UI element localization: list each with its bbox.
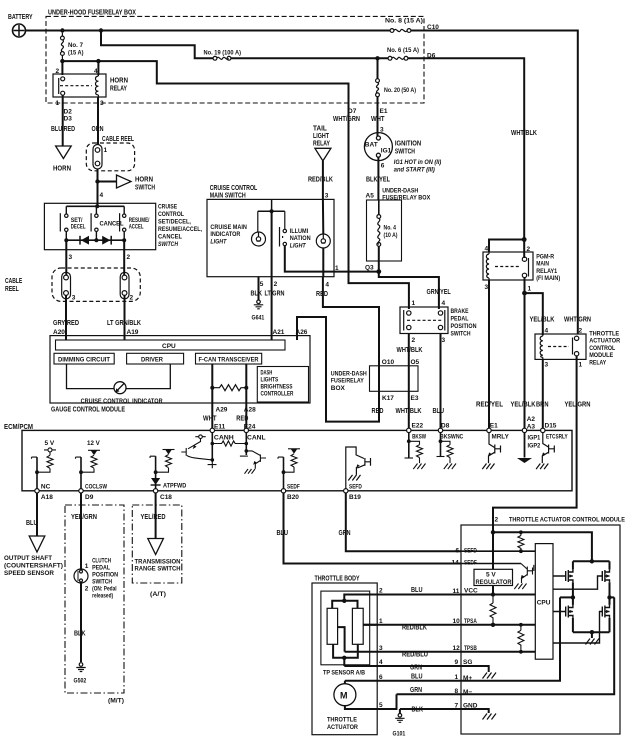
svg-text:ILLUMI: ILLUMI [290, 228, 309, 235]
node VCC junction [491, 592, 495, 596]
fuse No.20 (50A) [377, 58, 379, 78]
wire RED K17 to A26 riser [297, 317, 379, 422]
wire D2/D3 BLU/RED horn relay pin1 down [62, 95, 64, 146]
svg-text:A28: A28 [244, 407, 256, 414]
wire A29 WHT to E11 [211, 364, 213, 428]
svg-text:1: 1 [528, 286, 532, 293]
svg-text:1: 1 [455, 674, 459, 681]
wire LT GRN to A21 [271, 277, 273, 340]
wire pin1 to Q3 [334, 271, 379, 273]
svg-text:A3: A3 [527, 423, 536, 430]
M/T dash-dot box [65, 505, 124, 693]
svg-text:WHT/BLK: WHT/BLK [511, 130, 537, 137]
node TACM pin2 junction [491, 530, 495, 534]
svg-text:CABLE REEL: CABLE REEL [102, 136, 135, 143]
svg-text:2: 2 [56, 68, 60, 75]
resistor TPSA to TPSB [519, 623, 523, 627]
svg-text:2: 2 [495, 517, 499, 524]
wire TP sensor B wiper to pin 1 [363, 624, 377, 626]
svg-text:2: 2 [379, 588, 383, 595]
svg-text:BLK/YEL: BLK/YEL [366, 177, 391, 184]
svg-text:GRN: GRN [410, 665, 422, 672]
svg-text:LT GRN/BLK: LT GRN/BLK [107, 320, 141, 327]
wire cable reel to horn switch junction [97, 169, 99, 206]
wire TPSA row (pin 10) [363, 624, 535, 626]
transmission range switch off-page triangle [148, 539, 164, 555]
svg-text:BLU: BLU [433, 408, 445, 415]
svg-text:A29: A29 [216, 407, 228, 414]
svg-text:YEL/GRN: YEL/GRN [565, 402, 591, 409]
svg-text:7: 7 [455, 703, 459, 710]
svg-text:1: 1 [412, 300, 416, 307]
svg-text:10: 10 [453, 618, 461, 625]
node A18 connector [35, 489, 39, 493]
fuse No.8 (15A) [390, 29, 411, 33]
svg-text:WHT/BLK: WHT/BLK [397, 347, 423, 354]
diode D-left (points left) [81, 236, 89, 245]
wire regulator to VCC row [492, 586, 494, 595]
node B20 connector [281, 489, 285, 493]
svg-text:YEL/GRN: YEL/GRN [71, 514, 97, 521]
wire fuse7 to horn relay pins 2 and 4 and D7 feeder [62, 61, 348, 103]
switch CANCEL [91, 213, 98, 231]
node fuse20 tap [375, 56, 379, 60]
wire pin3 GRY/RED down [65, 240, 67, 275]
svg-text:4: 4 [442, 300, 446, 307]
svg-text:and START (III): and START (III) [394, 168, 435, 174]
svg-text:POSITION: POSITION [92, 573, 118, 579]
MOSFET Q-BL [572, 597, 574, 605]
horn switch off-page triangle [117, 175, 132, 188]
svg-text:SEDF: SEDF [287, 484, 300, 491]
svg-text:3: 3 [545, 362, 549, 369]
svg-text:CONTROL: CONTROL [158, 211, 184, 218]
resistor between A29/A28 [210, 386, 214, 390]
svg-text:2: 2 [85, 586, 89, 593]
wire LT GRN/BLK A19 [124, 295, 126, 340]
svg-text:No. 8 (15 A): No. 8 (15 A) [385, 18, 423, 25]
MOSFET Q-TR [609, 561, 611, 569]
svg-text:No. 6 (15 A): No. 6 (15 A) [387, 47, 419, 54]
cruise control main switch box [207, 199, 334, 276]
under-dash fuse/relay box (A5) [367, 200, 402, 261]
svg-text:MRLY: MRLY [492, 434, 510, 441]
node M- bridge [607, 595, 611, 599]
TP sensor element A [327, 608, 338, 644]
clutch pedal position switch [74, 569, 88, 583]
wire WHT/BLK E3 to E22 [408, 366, 410, 429]
svg-text:ATPFWD: ATPFWD [163, 483, 187, 490]
fuse No.6 (15A) [388, 56, 408, 60]
svg-text:YEL/RED: YEL/RED [141, 514, 166, 521]
svg-text:2: 2 [130, 295, 134, 302]
svg-text:CANCEL: CANCEL [158, 234, 182, 241]
svg-text:O10: O10 [382, 359, 395, 366]
svg-text:IG1: IG1 [381, 148, 392, 155]
svg-text:PEDAL: PEDAL [451, 316, 469, 323]
svg-text:WHT/GRN: WHT/GRN [564, 317, 591, 324]
svg-text:E1: E1 [490, 423, 498, 430]
svg-text:BKSWNC: BKSWNC [440, 434, 464, 441]
svg-text:1: 1 [56, 100, 60, 107]
svg-text:POSITION: POSITION [451, 323, 477, 330]
12V pull-up and COCLSW/D9 input [76, 450, 101, 472]
svg-text:DRIVER: DRIVER [141, 358, 164, 364]
wire BLU brake pin3 to D8 [440, 334, 442, 429]
svg-text:RED/BLK: RED/BLK [308, 177, 333, 184]
svg-text:4: 4 [379, 659, 383, 666]
ground G641 [254, 300, 263, 309]
svg-text:PEDAL: PEDAL [92, 566, 110, 572]
svg-text:WHT/GRN: WHT/GRN [333, 116, 360, 123]
wire GRN/YEL Q3 to brake switch pin4 [379, 272, 439, 309]
brake pedal position switch [400, 307, 448, 334]
svg-text:D7: D7 [348, 108, 357, 115]
illumination light bulb [316, 234, 330, 248]
wire WHT/BLK brake pin2 to O5 [408, 334, 410, 366]
wire pin2 to regulator [492, 532, 494, 569]
wire BLK to G641 [258, 277, 260, 300]
cable reel (lower) [52, 268, 140, 301]
svg-text:GRN/YEL: GRN/YEL [427, 289, 452, 296]
svg-text:(FI MAIN): (FI MAIN) [536, 275, 560, 282]
throttle actuator motor [334, 684, 356, 706]
svg-text:(COUNTERSHAFT): (COUNTERSHAFT) [4, 563, 63, 570]
wire RED/BLK tail relay to main switch pin3 [322, 161, 324, 200]
svg-text:GRY/RED: GRY/RED [53, 320, 79, 327]
svg-text:A2: A2 [527, 416, 536, 423]
ground G101 [399, 709, 401, 714]
svg-text:6: 6 [379, 674, 383, 681]
svg-text:RED: RED [316, 291, 328, 298]
svg-text:LIGHT: LIGHT [313, 133, 330, 140]
svg-text:MODULE: MODULE [589, 352, 614, 359]
fuse No.19 (100A) feeder [101, 31, 213, 59]
svg-text:BLU: BLU [26, 520, 38, 527]
svg-text:A21: A21 [273, 329, 285, 336]
output shaft speed sensor off-page triangle [29, 536, 45, 552]
svg-text:SWITCH: SWITCH [451, 331, 471, 338]
svg-text:3: 3 [325, 193, 329, 200]
svg-text:RED/BLU: RED/BLU [402, 652, 428, 659]
H-bridge rail node [590, 559, 594, 563]
wire motor bottom to pin 5 [345, 694, 397, 709]
svg-text:4: 4 [485, 246, 489, 253]
svg-text:CABLE: CABLE [5, 278, 22, 285]
under-dash fuse/relay box (O10/K17) [370, 366, 419, 392]
svg-text:E1: E1 [380, 108, 388, 115]
wire GRN B19 to TACM SEFD pin6 [346, 493, 461, 551]
svg-text:B20: B20 [287, 494, 299, 501]
svg-text:E3: E3 [411, 395, 419, 402]
svg-text:4: 4 [100, 192, 104, 199]
svg-text:C18: C18 [160, 494, 172, 501]
svg-text:Q3: Q3 [365, 265, 374, 272]
svg-text:1: 1 [104, 147, 108, 154]
node D9 connector [79, 489, 83, 493]
svg-text:1: 1 [335, 265, 339, 272]
svg-text:MAIN SWITCH: MAIN SWITCH [210, 193, 246, 200]
node battery-fuse7 junction [60, 28, 64, 32]
wire RED pin4 to under-dash O10 [323, 277, 379, 366]
wire YEL/RED C18 to transmission range switch [155, 493, 157, 539]
svg-text:SET/DECEL,: SET/DECEL, [158, 219, 191, 226]
wire BRN relay pin3 to D15 [542, 359, 544, 428]
svg-text:3: 3 [442, 337, 446, 344]
svg-text:3: 3 [100, 100, 104, 107]
svg-text:(15 A): (15 A) [68, 50, 84, 57]
horn relay [53, 74, 106, 97]
wire D7 WHT/GRN to brake switch pin1 [349, 104, 409, 310]
svg-text:RED/BLK: RED/BLK [402, 625, 427, 632]
svg-text:No. 4: No. 4 [384, 225, 397, 232]
svg-text:4: 4 [325, 282, 329, 289]
svg-text:COCLSW: COCLSW [85, 484, 108, 491]
wire BLK to G502 [80, 583, 82, 662]
svg-text:5 V: 5 V [45, 440, 55, 447]
svg-text:C10: C10 [427, 24, 439, 31]
svg-text:IG1 HOT in ON (II): IG1 HOT in ON (II) [394, 160, 442, 166]
wire internal top bus [66, 205, 124, 207]
svg-text:(A/T): (A/T) [150, 591, 166, 598]
svg-text:No. 19 (100 A): No. 19 (100 A) [204, 50, 242, 57]
SEFD/B19 driver transistor [346, 447, 371, 489]
dimming circuit box [54, 353, 114, 364]
node fuse7 output junction [60, 59, 64, 63]
svg-text:11: 11 [453, 588, 460, 595]
svg-text:RESUME/ACCEL,: RESUME/ACCEL, [158, 226, 202, 233]
wire pin2 LT GRN/BLK down [123, 240, 125, 275]
TP sensor element B [352, 608, 363, 644]
svg-text:SEDF: SEDF [464, 560, 477, 567]
node D15 connector [541, 428, 545, 432]
wire illumination switch to pin1 [285, 246, 334, 272]
wire bulb2 to pin4 [322, 248, 324, 277]
MOSFET Q-TL [572, 561, 574, 569]
wire TPSB row (pin 12) [345, 651, 536, 653]
svg-text:UNDER-DASH: UNDER-DASH [382, 188, 418, 195]
svg-text:SPEED SENSOR: SPEED SENSOR [4, 570, 54, 577]
wire TP sensor A wiper to pin 3 [338, 627, 345, 652]
wire BLU B20 to TACM SEDF pin14 [284, 493, 462, 564]
svg-text:IGP1: IGP1 [528, 435, 541, 442]
svg-text:CONTROL: CONTROL [589, 345, 615, 352]
svg-text:BOX: BOX [331, 385, 346, 392]
node M+ bridge [571, 595, 575, 599]
svg-text:2: 2 [527, 246, 531, 253]
battery B1 [8, 14, 33, 37]
svg-text:TAIL: TAIL [313, 126, 327, 133]
svg-text:THROTTLE BODY: THROTTLE BODY [315, 576, 360, 583]
svg-text:(M/T): (M/T) [108, 698, 124, 705]
svg-text:FUSE/RELAY: FUSE/RELAY [331, 378, 365, 385]
svg-text:OUTPUT SHAFT: OUTPUT SHAFT [4, 555, 52, 562]
svg-text:A19: A19 [127, 329, 139, 336]
diode D-right (points right) [102, 236, 110, 245]
svg-text:RANGE SWITCH: RANGE SWITCH [135, 567, 181, 573]
svg-text:SEFD: SEFD [349, 484, 362, 491]
svg-text:DECEL: DECEL [71, 225, 86, 231]
svg-text:CRUISE CONTROL: CRUISE CONTROL [210, 185, 258, 192]
wire pin2 LT GRN down [271, 211, 273, 277]
svg-text:E22: E22 [412, 423, 424, 430]
svg-text:LT GRN: LT GRN [265, 291, 285, 298]
wire YEL/BLK to A2/A3 [524, 293, 526, 428]
node horn switch tap [95, 179, 99, 183]
svg-text:3: 3 [69, 254, 73, 261]
svg-text:G502: G502 [74, 678, 87, 685]
12V pull-up and SEDF/B20 [278, 449, 300, 472]
horn off-page triangle [56, 146, 72, 159]
svg-text:UNDER-HOOD FUSE/RELAY BOX: UNDER-HOOD FUSE/RELAY BOX [48, 10, 136, 17]
svg-text:ETCSRLY: ETCSRLY [546, 434, 568, 441]
svg-text:SWITCH: SWITCH [395, 149, 415, 156]
svg-text:CPU: CPU [162, 343, 176, 350]
wire internal bottom bus [66, 232, 124, 241]
svg-text:12: 12 [453, 645, 461, 652]
svg-text:5: 5 [260, 281, 264, 288]
A/T dash-dot box [132, 505, 182, 583]
svg-text:O5: O5 [411, 359, 420, 366]
node D8 connector [438, 428, 442, 432]
wire RED/YEL PGM-R pin3 to E1 [488, 280, 490, 428]
node A2/A3 connector [522, 428, 526, 432]
wire horn relay pin2 up [61, 61, 63, 75]
node C18 connector [153, 489, 157, 493]
throttle actuator control module box [461, 525, 620, 734]
svg-text:6: 6 [381, 163, 385, 170]
svg-text:IGP2: IGP2 [528, 443, 541, 450]
svg-text:No. 7: No. 7 [68, 42, 83, 49]
wire fuse4 to Q3 node [378, 246, 380, 271]
svg-text:ACTUATOR: ACTUATOR [589, 338, 620, 345]
svg-text:G101: G101 [393, 731, 406, 738]
wire BLU A18 to output shaft speed sensor [36, 493, 38, 536]
svg-text:SWITCH: SWITCH [92, 580, 112, 586]
node E22 connector [407, 428, 411, 432]
svg-text:RELAY1: RELAY1 [536, 268, 557, 275]
node WHT/BLK tap [522, 237, 527, 242]
throttle body box [312, 583, 377, 735]
transistor SEDF input [514, 564, 534, 590]
svg-text:SWITCH: SWITCH [158, 241, 178, 248]
wire PGM-R pin4 to WHT/BLK node [489, 240, 524, 253]
switch SET/DECEL [60, 213, 68, 231]
svg-text:M: M [340, 691, 348, 701]
svg-text:BKSW: BKSW [412, 434, 427, 441]
svg-text:K17: K17 [382, 395, 394, 402]
fuse No.7 (15A) [61, 33, 65, 61]
svg-text:THROTTLE: THROTTLE [327, 717, 358, 724]
svg-text:RELAY: RELAY [313, 141, 330, 148]
wire horn relay pin4 up [97, 61, 99, 75]
svg-text:WHT: WHT [371, 116, 385, 123]
diode ATPFWD [151, 478, 160, 485]
F-CAN transceiver box [196, 353, 262, 364]
wire YEL/GRN relay pin1 to TACM pin2 [493, 356, 577, 532]
svg-text:VCC: VCC [464, 588, 478, 595]
svg-text:THROTTLE: THROTTLE [589, 331, 620, 338]
svg-text:1: 1 [379, 618, 383, 625]
svg-text:BRN: BRN [536, 402, 549, 409]
svg-text:RELAY: RELAY [110, 86, 127, 93]
svg-text:A20: A20 [53, 329, 65, 336]
wire C10 to right edge [411, 31, 578, 335]
svg-text:B19: B19 [349, 494, 361, 501]
node Q3 [376, 269, 381, 274]
svg-text:CPU: CPU [537, 600, 551, 607]
ground GND [483, 714, 497, 720]
svg-text:5: 5 [379, 702, 383, 709]
ECM/PCM box [22, 430, 572, 490]
svg-text:TPSA: TPSA [464, 618, 477, 625]
svg-text:14: 14 [452, 560, 460, 567]
svg-text:ACCEL: ACCEL [129, 225, 144, 231]
svg-text:D2: D2 [64, 109, 73, 116]
svg-text:BLK: BLK [251, 291, 263, 298]
PGM-R main relay1 (FI MAIN) [483, 252, 533, 280]
svg-text:4: 4 [94, 68, 98, 75]
svg-text:INDICATOR: INDICATOR [210, 231, 240, 238]
wire YEL/GRN D9 to clutch switch [80, 493, 82, 569]
svg-text:12 V: 12 V [87, 440, 100, 447]
svg-text:BLU: BLU [411, 587, 423, 594]
svg-text:SEFD: SEFD [464, 548, 477, 555]
svg-text:(10 A): (10 A) [384, 232, 398, 239]
node battery-fuse19 junction [99, 28, 103, 32]
svg-text:BLU: BLU [411, 674, 423, 681]
wire ORN horn relay pin3 down to cable reel [97, 97, 99, 145]
svg-text:LIGHT: LIGHT [290, 242, 307, 249]
node pin1 branch [522, 291, 527, 296]
svg-text:8: 8 [455, 688, 459, 695]
node E1 connector [487, 428, 491, 432]
svg-text:1: 1 [579, 362, 583, 369]
svg-text:BLU: BLU [277, 530, 289, 537]
svg-text:D3: D3 [64, 116, 73, 123]
svg-text:DIMMING CIRCUIT: DIMMING CIRCUIT [58, 358, 110, 364]
svg-text:YEL/BLK: YEL/BLK [530, 317, 555, 324]
svg-text:GND: GND [463, 703, 478, 710]
cruise main indicator light bulb [252, 211, 266, 246]
svg-text:E11: E11 [214, 423, 226, 430]
svg-text:M+: M+ [463, 675, 472, 682]
svg-text:ORN: ORN [92, 126, 104, 133]
wire M+ row (pin 1) [345, 597, 560, 680]
wire internal rail [258, 210, 285, 212]
dash lights brightness controller box [257, 367, 308, 403]
svg-text:G641: G641 [252, 315, 265, 322]
svg-text:BRIGHTNESS: BRIGHTNESS [261, 385, 293, 391]
fuse No.4 (10A) [378, 200, 380, 215]
12V pull-up, diode and ATPFWD/C18 input [150, 450, 175, 473]
svg-text:released): released) [92, 594, 113, 600]
CPU bar [56, 340, 286, 350]
svg-text:THROTTLE ACTUATOR CONTROL MODU: THROTTLE ACTUATOR CONTROL MODULE [509, 517, 626, 524]
wire SG row (pin 9) to internal ground [344, 666, 488, 672]
svg-text:CRUISE MAIN: CRUISE MAIN [210, 224, 247, 231]
svg-text:6: 6 [456, 548, 460, 555]
throttle actuator control module relay [535, 334, 586, 359]
svg-text:CRUISE: CRUISE [158, 204, 178, 211]
svg-text:NC: NC [41, 484, 51, 491]
svg-text:REEL: REEL [5, 286, 19, 293]
svg-text:REGULATOR: REGULATOR [476, 579, 512, 586]
svg-text:BLK: BLK [412, 707, 424, 714]
wire TP bottom rail to pin 4 [333, 644, 358, 658]
svg-text:RED: RED [372, 408, 384, 415]
under-hood fuse/relay box [46, 16, 424, 103]
